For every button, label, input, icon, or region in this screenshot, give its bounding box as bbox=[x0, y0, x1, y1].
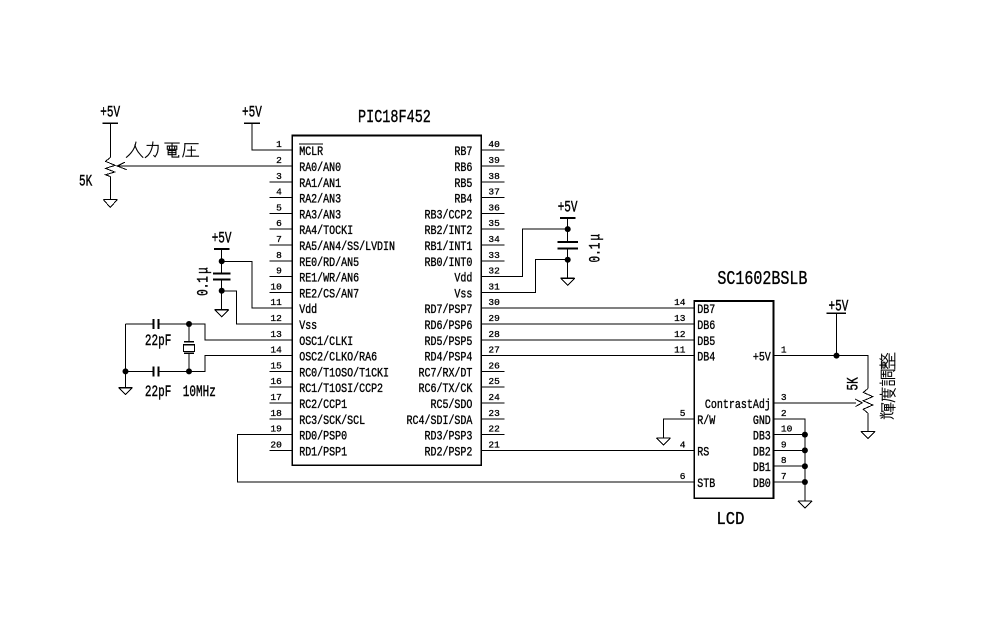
label kido-chosei (brightness adjust, rotated) bbox=[880, 353, 895, 419]
U1 pin 6 (RA4/TOCKI) stub + number + label bbox=[269, 228, 292, 230]
svg-text:RD6/PSP6: RD6/PSP6 bbox=[424, 320, 472, 333]
svg-text:13: 13 bbox=[270, 329, 282, 340]
U1 pin 26 (RC7/RX/DT) stub + number + label bbox=[481, 370, 504, 372]
svg-text:14: 14 bbox=[270, 345, 282, 356]
wire LCD R/W to ground bbox=[663, 419, 694, 438]
U1 pin 4 (RA2/AN3) stub + number + label bbox=[269, 197, 292, 199]
svg-text:5K: 5K bbox=[846, 377, 863, 391]
svg-text:11: 11 bbox=[674, 345, 686, 356]
svg-text:37: 37 bbox=[488, 187, 499, 198]
wire LCD DB3 stub to chain bbox=[774, 434, 805, 436]
U1 pin 11 (Vdd) stub + number + label bbox=[269, 307, 292, 309]
ground for LCD R/W bbox=[656, 437, 670, 439]
svg-text:RE0/RD/AN5: RE0/RD/AN5 bbox=[299, 257, 359, 270]
wire OSC1 net to U1 pin 13 OSC1/CLKI bbox=[189, 324, 269, 340]
svg-text:10MHz: 10MHz bbox=[183, 384, 216, 401]
svg-text:9: 9 bbox=[276, 266, 282, 277]
wire U1 pin 30 to LCD DB7 bbox=[505, 307, 695, 309]
ground for VR2 bbox=[861, 431, 875, 433]
svg-text:RC4/SDI/SDA: RC4/SDI/SDA bbox=[407, 415, 473, 428]
svg-text:39: 39 bbox=[488, 155, 500, 166]
ground for C4 bbox=[567, 260, 569, 279]
U1 pin 8 (RE0/RD/AN5) stub + number + label bbox=[269, 260, 292, 262]
svg-text:DB7: DB7 bbox=[697, 304, 715, 317]
svg-text:17: 17 bbox=[270, 392, 281, 403]
svg-text:9: 9 bbox=[781, 439, 787, 450]
ground for LCD data chain bbox=[804, 482, 806, 501]
ground for C1 bbox=[221, 291, 223, 310]
svg-text:RA1/AN1: RA1/AN1 bbox=[299, 178, 341, 191]
wire U1 pin 19 RD0/PSP0 to LCD STB bbox=[237, 435, 694, 482]
wire C1 top to U1 pin 11 Vdd bbox=[222, 261, 270, 308]
svg-text:RA0/AN0: RA0/AN0 bbox=[299, 162, 341, 175]
U1 pin 31 (Vss) stub + number + label bbox=[481, 291, 504, 293]
U1 pin 24 (RC5/SDO) stub + number + label bbox=[481, 402, 504, 404]
U1 pin 20 (RD1/PSP1) stub + number + label bbox=[269, 449, 292, 451]
svg-text:RE2/CS/AN7: RE2/CS/AN7 bbox=[299, 289, 359, 302]
svg-text:RA4/TOCKI: RA4/TOCKI bbox=[299, 225, 353, 238]
svg-text:Vdd: Vdd bbox=[299, 304, 317, 317]
U1 pin 16 (RC1/T1OSI/CCP2) stub + number + label bbox=[269, 386, 292, 388]
U1 pin 30 (RD7/PSP7) stub + number + label bbox=[481, 307, 504, 309]
svg-text:ContrastAdj: ContrastAdj bbox=[705, 399, 771, 412]
svg-text:1: 1 bbox=[781, 345, 787, 356]
svg-text:16: 16 bbox=[270, 376, 282, 387]
capacitor C3 22pF plates (bottom) bbox=[153, 366, 155, 376]
svg-text:19: 19 bbox=[270, 424, 282, 435]
svg-text:OSC2/CLKO/RA6: OSC2/CLKO/RA6 bbox=[299, 352, 377, 365]
svg-text:34: 34 bbox=[488, 234, 500, 245]
svg-text:22pF: 22pF bbox=[145, 333, 171, 350]
svg-text:RC6/TX/CK: RC6/TX/CK bbox=[418, 383, 472, 396]
svg-text:DB6: DB6 bbox=[697, 320, 715, 333]
wire U1 pin 27 to LCD DB4 bbox=[505, 355, 695, 357]
svg-text:1: 1 bbox=[276, 139, 282, 150]
svg-text:SC1602BSLB: SC1602BSLB bbox=[717, 270, 807, 291]
svg-text:DB3: DB3 bbox=[753, 431, 771, 444]
svg-text:3: 3 bbox=[276, 171, 282, 182]
ground for VR1 bbox=[103, 199, 117, 201]
svg-text:8: 8 bbox=[781, 455, 787, 466]
svg-text:8: 8 bbox=[276, 250, 282, 261]
svg-text:RB5: RB5 bbox=[454, 178, 472, 191]
svg-text:DB4: DB4 bbox=[697, 352, 715, 365]
svg-text:DB2: DB2 bbox=[753, 447, 771, 460]
wire C4 bottom to U1 pin 31 Vss bbox=[505, 260, 568, 293]
svg-text:36: 36 bbox=[488, 202, 500, 213]
node junction crystal bottom bbox=[186, 368, 192, 374]
node junction C1 top bbox=[219, 258, 225, 264]
capacitor C2 22pF plates (top) bbox=[153, 319, 155, 329]
svg-text:RC3/SCK/SCL: RC3/SCK/SCL bbox=[299, 415, 365, 428]
U1 pin 18 (RC3/SCK/SCL) stub + number + label bbox=[269, 418, 292, 420]
U1 pin 22 (RD3/PSP3) stub + number + label bbox=[481, 434, 504, 436]
svg-text:32: 32 bbox=[488, 266, 500, 277]
svg-text:DB0: DB0 bbox=[753, 478, 771, 491]
svg-text:RC7/RX/DT: RC7/RX/DT bbox=[418, 368, 472, 381]
svg-text:Vdd: Vdd bbox=[454, 273, 472, 286]
svg-text:13: 13 bbox=[674, 313, 686, 324]
U1 pin 36 (RB3/CCP2) stub + number + label bbox=[481, 212, 504, 214]
svg-text:3: 3 bbox=[781, 392, 787, 403]
svg-text:7: 7 bbox=[781, 471, 787, 482]
svg-text:RA5/AN4/SS/LVDIN: RA5/AN4/SS/LVDIN bbox=[299, 241, 395, 254]
wire U1 pin 21 RD2/PSP2 to LCD RS bbox=[505, 449, 695, 451]
svg-text:40: 40 bbox=[488, 139, 500, 150]
U1 pin 29 (RD6/PSP6) stub + number + label bbox=[481, 323, 504, 325]
svg-text:RD5/PSP5: RD5/PSP5 bbox=[424, 336, 472, 349]
svg-text:RD7/PSP7: RD7/PSP7 bbox=[424, 304, 472, 317]
svg-text:20: 20 bbox=[270, 439, 282, 450]
svg-text:10: 10 bbox=[270, 281, 282, 292]
svg-text:38: 38 bbox=[488, 171, 500, 182]
svg-text:RB7: RB7 bbox=[454, 146, 472, 159]
svg-text:35: 35 bbox=[488, 218, 500, 229]
svg-text:22: 22 bbox=[488, 424, 500, 435]
svg-text:STB: STB bbox=[697, 478, 715, 491]
node junction crystal top bbox=[186, 321, 192, 327]
svg-text:12: 12 bbox=[674, 329, 686, 340]
U1 pin 15 (RC0/T1OSO/T1CKI) stub + number + label bbox=[269, 370, 292, 372]
wire crystal bottom rail (OSC2 net) bbox=[126, 370, 154, 372]
node junction +5V / LCD pin1 bbox=[834, 353, 840, 359]
svg-text:25: 25 bbox=[488, 376, 500, 387]
VR1 wiper arrow bbox=[117, 162, 126, 170]
net label nyuuryoku-denatsu (input voltage) bbox=[126, 142, 198, 158]
svg-text:Vss: Vss bbox=[454, 289, 472, 302]
capacitor C1 0.1u plates bbox=[213, 273, 230, 275]
crystal X1 element bbox=[188, 324, 190, 342]
wire LCD ContrastAdj to VR2 wiper bbox=[774, 402, 856, 404]
svg-text:RB1/INT1: RB1/INT1 bbox=[424, 241, 472, 254]
U1 pin 40 (RB7) stub + number + label bbox=[481, 149, 504, 151]
svg-text:RD0/PSP0: RD0/PSP0 bbox=[299, 431, 347, 444]
U1 pin 23 (RC4/SDI/SDA) stub + number + label bbox=[481, 418, 504, 420]
U1 pin 33 (RB0/INT0) stub + number + label bbox=[481, 260, 504, 262]
U1 pin 28 (RD5/PSP5) stub + number + label bbox=[481, 339, 504, 341]
U1 pin 2 (RA0/AN0) stub + number + label bbox=[269, 165, 292, 167]
capacitor C4 0.1u plates bbox=[558, 241, 578, 243]
svg-text:4: 4 bbox=[680, 439, 686, 450]
svg-text:RS: RS bbox=[697, 447, 709, 460]
svg-text:DB5: DB5 bbox=[697, 336, 715, 349]
wire LCD DB0 stub to chain bbox=[774, 481, 805, 483]
svg-text:22pF: 22pF bbox=[145, 384, 171, 401]
svg-text:10: 10 bbox=[781, 424, 793, 435]
node junction DB0/GND bbox=[802, 479, 808, 485]
U1 pin 1 (MCLR) stub + number + label bbox=[269, 149, 292, 151]
svg-text:R/W: R/W bbox=[697, 415, 715, 428]
wire U1 pin 29 to LCD DB6 bbox=[505, 323, 695, 325]
wire +5V to U1 pin 1 MCLR bbox=[252, 123, 269, 150]
svg-text:RC5/SDO: RC5/SDO bbox=[430, 399, 472, 412]
svg-text:RB0/INT0: RB0/INT0 bbox=[424, 257, 472, 270]
potentiometer VR2 5K element bbox=[863, 389, 873, 414]
svg-text:23: 23 bbox=[488, 408, 500, 419]
svg-text:0.1μ: 0.1μ bbox=[588, 234, 605, 263]
svg-text:33: 33 bbox=[488, 250, 500, 261]
svg-text:RC2/CCP1: RC2/CCP1 bbox=[299, 399, 347, 412]
node junction C4 bottom bbox=[565, 257, 571, 263]
svg-text:14: 14 bbox=[674, 297, 686, 308]
U1 pin 19 (RD0/PSP0) stub + number + label bbox=[269, 434, 292, 436]
wire U1 pin 28 to LCD DB5 bbox=[505, 339, 695, 341]
svg-text:15: 15 bbox=[270, 360, 282, 371]
svg-text:30: 30 bbox=[488, 297, 500, 308]
U1 pin 9 (RE1/WR/AN6) stub + number + label bbox=[269, 276, 292, 278]
svg-text:24: 24 bbox=[488, 392, 500, 403]
svg-text:RB2/INT2: RB2/INT2 bbox=[424, 225, 472, 238]
node junction caps to ground bbox=[123, 368, 129, 374]
svg-text:RB6: RB6 bbox=[454, 162, 472, 175]
svg-text:6: 6 bbox=[276, 218, 282, 229]
svg-text:2: 2 bbox=[781, 408, 787, 419]
svg-text:RA3/AN3: RA3/AN3 bbox=[299, 210, 341, 223]
svg-text:RC1/T1OSI/CCP2: RC1/T1OSI/CCP2 bbox=[299, 383, 383, 396]
svg-text:+5V: +5V bbox=[242, 105, 262, 122]
U1 pin 7 (RA5/AN4/SS/LVDIN) stub + number + label bbox=[269, 244, 292, 246]
U1 pin 3 (RA1/AN1) stub + number + label bbox=[269, 181, 292, 183]
wire left vertical joining C2 and C3 bbox=[125, 324, 127, 371]
wire LCD DB2 stub to chain bbox=[774, 449, 805, 451]
U1 pin 17 (RC2/CCP1) stub + number + label bbox=[269, 402, 292, 404]
U1 pin 34 (RB1/INT1) stub + number + label bbox=[481, 244, 504, 246]
svg-text:LCD: LCD bbox=[717, 510, 745, 531]
svg-text:GND: GND bbox=[753, 415, 771, 428]
svg-text:21: 21 bbox=[488, 439, 500, 450]
wire LCD DB1 stub to chain bbox=[774, 465, 805, 467]
svg-text:MCLR: MCLR bbox=[299, 146, 323, 159]
U1 pin 37 (RB4) stub + number + label bbox=[481, 197, 504, 199]
U1 pin 10 (RE2/CS/AN7) stub + number + label bbox=[269, 291, 292, 293]
svg-text:4: 4 bbox=[276, 187, 282, 198]
svg-text:29: 29 bbox=[488, 313, 500, 324]
svg-text:0.1μ: 0.1μ bbox=[196, 267, 213, 296]
svg-text:28: 28 bbox=[488, 329, 500, 340]
svg-text:31: 31 bbox=[488, 281, 500, 292]
U1 pin 39 (RB6) stub + number + label bbox=[481, 165, 504, 167]
VR2 wiper arrow bbox=[855, 399, 862, 407]
svg-text:RD2/PSP2: RD2/PSP2 bbox=[424, 447, 472, 460]
potentiometer VR1 5K element bbox=[106, 158, 116, 177]
IC U1 PIC18F452 body bbox=[292, 136, 481, 466]
svg-text:Vss: Vss bbox=[299, 320, 317, 333]
U1 pin 5 (RA3/AN3) stub + number + label bbox=[269, 212, 292, 214]
svg-text:5: 5 bbox=[276, 202, 282, 213]
ground for C2/C3 bbox=[125, 371, 127, 387]
node junction DB1/GND bbox=[802, 463, 808, 469]
wire C1 bottom to U1 pin 12 Vss bbox=[222, 291, 270, 324]
svg-text:5: 5 bbox=[680, 408, 686, 419]
svg-text:PIC18F452: PIC18F452 bbox=[358, 107, 431, 128]
wire C4 top to U1 pin 32 Vdd bbox=[505, 229, 568, 277]
svg-text:+5V: +5V bbox=[558, 200, 578, 217]
U1 pin 14 (OSC2/CLKO/RA6) stub + number + label bbox=[269, 355, 292, 357]
svg-text:11: 11 bbox=[270, 297, 282, 308]
svg-text:RE1/WR/AN6: RE1/WR/AN6 bbox=[299, 273, 359, 286]
U1 pin 35 (RB2/INT2) stub + number + label bbox=[481, 228, 504, 230]
svg-text:RB3/CCP2: RB3/CCP2 bbox=[424, 210, 472, 223]
svg-text:27: 27 bbox=[488, 345, 499, 356]
node junction DB2/GND bbox=[802, 447, 808, 453]
svg-text:6: 6 bbox=[680, 471, 686, 482]
node junction DB3/GND bbox=[802, 432, 808, 438]
LCD module SC1602BSLB body bbox=[694, 301, 773, 498]
wire crystal top rail (OSC1 net) bbox=[126, 323, 154, 325]
svg-text:RD3/PSP3: RD3/PSP3 bbox=[424, 431, 472, 444]
svg-text:+5V: +5V bbox=[212, 231, 232, 248]
U1 pin 25 (RC6/TX/CK) stub + number + label bbox=[481, 386, 504, 388]
svg-text:+5V: +5V bbox=[100, 105, 120, 122]
svg-text:26: 26 bbox=[488, 360, 500, 371]
node junction C1 bottom bbox=[219, 288, 225, 294]
U1 pin 13 (OSC1/CLKI) stub + number + label bbox=[269, 339, 292, 341]
U1 pin 27 (RD4/PSP4) stub + number + label bbox=[481, 355, 504, 357]
svg-text:+5V: +5V bbox=[753, 352, 771, 365]
wire LCD GND to data line chain bbox=[774, 419, 805, 482]
U1 pin 12 (Vss) stub + number + label bbox=[269, 323, 292, 325]
svg-text:RB4: RB4 bbox=[454, 194, 472, 207]
svg-text:12: 12 bbox=[270, 313, 282, 324]
svg-text:OSC1/CLKI: OSC1/CLKI bbox=[299, 336, 353, 349]
U1 pin 32 (Vdd) stub + number + label bbox=[481, 276, 504, 278]
svg-text:RA2/AN3: RA2/AN3 bbox=[299, 194, 341, 207]
U1 pin 21 (RD2/PSP2) stub + number + label bbox=[481, 449, 504, 451]
svg-text:5K: 5K bbox=[79, 174, 93, 191]
node junction C4 top bbox=[565, 226, 571, 232]
wire OSC2 net to U1 pin 14 OSC2/CLKO/RA6 bbox=[189, 356, 269, 372]
wire LCD +5V pin to VR2 top bbox=[774, 356, 868, 389]
svg-text:7: 7 bbox=[276, 234, 282, 245]
svg-text:2: 2 bbox=[276, 155, 282, 166]
svg-text:DB1: DB1 bbox=[753, 462, 771, 475]
wire VR1 wiper to U1 pin 2 RA0/AN0 bbox=[117, 165, 269, 167]
U1 pin 38 (RB5) stub + number + label bbox=[481, 181, 504, 183]
svg-text:RC0/T1OSO/T1CKI: RC0/T1OSO/T1CKI bbox=[299, 368, 389, 381]
svg-text:RD4/PSP4: RD4/PSP4 bbox=[424, 352, 472, 365]
svg-text:RD1/PSP1: RD1/PSP1 bbox=[299, 447, 347, 460]
svg-text:18: 18 bbox=[270, 408, 282, 419]
